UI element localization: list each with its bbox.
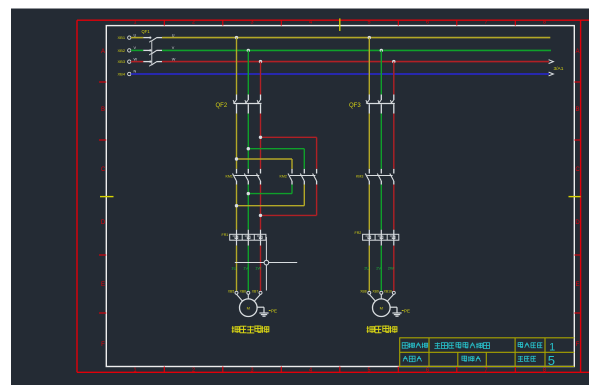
junction dot U/KM2 — [235, 157, 238, 160]
svg-text:A: A — [101, 49, 105, 55]
title cell: main-circuit-wiring-diagram (Chinese) — [434, 343, 440, 349]
svg-text:F: F — [576, 342, 580, 348]
title block grid — [400, 338, 575, 367]
wire V feed to KM2 pole2 (vertical) — [303, 149, 305, 169]
terminal XB7 — [259, 291, 262, 294]
sheet centre tick left (yellow) — [100, 196, 114, 198]
svg-text:KM3: KM3 — [356, 175, 363, 179]
svg-text:A: A — [575, 49, 579, 55]
svg-text:XB1: XB1 — [118, 35, 126, 40]
wire U bus (XB1 to QF1) — [131, 37, 143, 39]
title cell: current-page label (Chinese) — [518, 342, 523, 347]
svg-text:3: 3 — [250, 367, 253, 373]
ground PE motor 1 — [257, 306, 264, 308]
wire W feed to KM2 pole3 (vertical) — [316, 137, 318, 169]
svg-text:QF2: QF2 — [216, 103, 228, 109]
label rotation-motor (Chinese) — [367, 326, 375, 333]
wire 1V (FR1 to motor) — [247, 246, 249, 292]
svg-text:XB5: XB5 — [228, 289, 235, 293]
svg-text:D: D — [575, 220, 580, 226]
wire KM2 pole2 out to U main — [237, 205, 305, 207]
motor M2 — [373, 299, 391, 317]
svg-text:6: 6 — [426, 19, 429, 25]
terminal XB2 — [128, 49, 131, 52]
terminal XB4 — [128, 72, 131, 75]
terminal XB3 — [128, 60, 131, 63]
title cell: reviewer label (Chinese) — [462, 356, 467, 361]
svg-text:4: 4 — [309, 19, 312, 25]
wire 2U (FR2 to motor) — [368, 246, 370, 292]
ground PE motor 2 — [390, 306, 397, 308]
wire V feed to KM2 pole2 (horizontal) — [248, 148, 304, 150]
wire V bus — [162, 49, 551, 51]
thermal relay FR2 wire stubs — [368, 230, 370, 246]
svg-text:N: N — [134, 70, 137, 74]
wire U bus — [162, 37, 550, 39]
svg-text:8: 8 — [543, 19, 546, 25]
wire V (QF3 to KM3) — [380, 114, 382, 169]
wire KM2 pole3 out (red, vertical) — [316, 185, 318, 216]
svg-text:F: F — [101, 342, 105, 348]
junction dot W/KM2 — [259, 136, 262, 139]
wire U main (QF2 to KM1) — [236, 114, 238, 169]
svg-text:FR1: FR1 — [222, 233, 229, 237]
title cell: total-pages label (Chinese) — [518, 356, 524, 361]
svg-text:3/A1: 3/A1 — [554, 66, 564, 72]
junction dot — [392, 60, 395, 63]
svg-text:FR2: FR2 — [355, 231, 362, 235]
svg-text:XB8: XB8 — [360, 289, 367, 293]
svg-text:QF1: QF1 — [142, 29, 151, 34]
wire W bus — [162, 61, 549, 63]
wire V bus (XB2 to QF1) — [131, 49, 143, 51]
terminal XB5 — [235, 291, 238, 294]
title cell: designer label (Chinese) — [403, 356, 408, 361]
svg-text:E: E — [575, 282, 579, 288]
border zone ticks top — [163, 20, 165, 25]
svg-text:1W: 1W — [255, 266, 261, 271]
wire U drop to QF2 — [236, 38, 238, 95]
wire KM2 pole3 out to W main — [261, 214, 317, 216]
FR1 trip linkage line — [265, 237, 267, 291]
terminal XB8 — [368, 291, 371, 294]
svg-text:8: 8 — [543, 367, 546, 373]
svg-text:5: 5 — [548, 353, 555, 368]
svg-text:KM2: KM2 — [280, 175, 287, 179]
svg-text:1U: 1U — [231, 266, 236, 271]
junction dot W out — [259, 214, 262, 217]
svg-text:2V: 2V — [376, 266, 381, 271]
wire W feed to KM2 pole3 (horizontal) — [261, 136, 317, 138]
svg-text:2W: 2W — [388, 266, 394, 271]
svg-text:C: C — [101, 167, 106, 173]
thermal relay FR2 box — [363, 234, 399, 240]
arrow N bus continues (to sheet 3/A1) — [549, 72, 554, 76]
junction dot — [235, 36, 238, 39]
wire V main (QF2 to KM1) — [247, 114, 249, 169]
wire V drop to QF3 — [380, 50, 382, 94]
QF1 linkage line — [151, 41, 153, 65]
cable marker line — [235, 262, 297, 264]
thermal relay FR1 wire stubs — [236, 230, 238, 246]
wire V (KM3 to FR2) — [380, 185, 382, 230]
svg-text:E: E — [101, 282, 105, 288]
wire V drop to QF2 — [247, 50, 249, 94]
wire KM2 pole2 out (yellow, vertical) — [303, 185, 305, 206]
wire 1W (FR1 to motor) — [260, 246, 262, 292]
wire U (QF3 to KM3) — [368, 114, 370, 169]
arrow W bus continues (to sheet 3/A1) — [549, 60, 554, 64]
wire V main (KM1 to FR1) — [247, 185, 249, 230]
junction dot — [380, 49, 383, 52]
svg-text:B: B — [575, 107, 579, 113]
svg-text:4: 4 — [309, 367, 312, 373]
svg-text:C: C — [575, 167, 580, 173]
svg-text:2: 2 — [192, 19, 195, 25]
terminal XB6 — [247, 291, 250, 294]
svg-text:XB3: XB3 — [118, 59, 126, 64]
svg-text:1: 1 — [133, 367, 136, 373]
breaker QF1 — [143, 37, 150, 39]
border zone ticks left — [99, 81, 106, 83]
wire KM2 pole1 out to V main — [248, 193, 292, 195]
junction dot — [247, 49, 250, 52]
svg-text:XB6: XB6 — [240, 289, 247, 293]
svg-text:U: U — [134, 33, 137, 37]
cable marker node circle — [264, 260, 269, 265]
sheet inner white border frame — [106, 26, 574, 367]
wire N bus — [131, 73, 549, 75]
border zone ticks bottom — [163, 367, 165, 373]
wire W drop to QF2 — [260, 62, 262, 95]
svg-text:5: 5 — [367, 367, 370, 373]
contactor KM3 contacts — [368, 169, 370, 174]
junction dot — [259, 60, 262, 63]
svg-text:U: U — [172, 33, 175, 37]
junction dot U out — [235, 204, 238, 207]
junction dot V out — [247, 192, 250, 195]
svg-text:PE: PE — [404, 309, 410, 314]
svg-text:5: 5 — [367, 19, 370, 25]
wire 2W (FR2 to motor) — [393, 246, 395, 292]
svg-text:B: B — [101, 107, 105, 113]
wire U drop to QF3 — [368, 38, 370, 95]
svg-text:7: 7 — [484, 19, 487, 25]
sheet centre tick top (yellow) — [339, 18, 341, 31]
svg-text:QF3: QF3 — [349, 103, 361, 109]
svg-text:XB9: XB9 — [372, 289, 379, 293]
breaker QF2 contacts — [236, 95, 238, 101]
svg-text:XB4: XB4 — [118, 72, 126, 77]
thermal relay FR1 box — [230, 234, 266, 240]
terminal XB10 — [392, 291, 395, 294]
junction dot — [368, 36, 371, 39]
svg-text:V: V — [172, 46, 175, 50]
sheet outer red border frame — [77, 19, 589, 21]
label mechanical-arm-motor (Chinese) — [232, 326, 240, 333]
svg-text:D: D — [101, 220, 106, 226]
wire W bus (XB3 to QF1) — [131, 61, 143, 63]
wire U feed to KM2 pole1 (vertical) — [291, 159, 293, 169]
svg-text:PE: PE — [271, 309, 277, 314]
svg-text:XB7: XB7 — [252, 289, 259, 293]
terminal XB1 — [128, 36, 131, 39]
wire W main (KM1 to FR1) — [260, 185, 262, 230]
svg-text:3: 3 — [250, 19, 253, 25]
wire W (QF3 to KM3) — [393, 114, 395, 169]
svg-text:1V: 1V — [243, 266, 248, 271]
svg-text:1: 1 — [549, 341, 555, 353]
border zone ticks right — [574, 81, 580, 83]
wire U feed to KM2 pole1 (horizontal) — [237, 158, 293, 160]
svg-text:W: W — [172, 57, 176, 61]
wire U (KM3 to FR2) — [368, 185, 370, 230]
wire KM2 pole1 out (green, vertical) — [291, 185, 293, 194]
svg-text:7: 7 — [484, 367, 487, 373]
svg-text:M: M — [380, 305, 383, 310]
svg-text:KM1: KM1 — [226, 175, 233, 179]
wire 1U (FR1 to motor) — [236, 246, 238, 292]
title cell: drawing-name label (Chinese) — [402, 343, 408, 349]
contactor KM2 contacts — [291, 169, 293, 174]
svg-text:2U: 2U — [364, 266, 369, 271]
sheet centre tick right (yellow) — [569, 196, 581, 198]
contactor KM1 contacts — [236, 169, 238, 174]
junction dot V/KM2 — [247, 147, 250, 150]
wire W (KM3 to FR2) — [393, 185, 395, 230]
svg-text:XB10: XB10 — [384, 289, 392, 293]
wire W main (QF2 to KM1) — [260, 114, 262, 169]
motor M1 — [240, 299, 258, 317]
svg-text:W: W — [134, 57, 138, 61]
breaker QF3 contacts — [368, 95, 370, 101]
svg-text:1: 1 — [133, 19, 136, 25]
wire 2V (FR2 to motor) — [380, 246, 382, 292]
wire U main (KM1 to FR1) — [236, 185, 238, 230]
wire W drop to QF3 — [393, 62, 395, 95]
svg-text:XB2: XB2 — [118, 48, 126, 53]
svg-text:M: M — [247, 305, 250, 310]
svg-text:2: 2 — [192, 367, 195, 373]
svg-text:6: 6 — [426, 367, 429, 373]
terminal XB9 — [380, 291, 383, 294]
